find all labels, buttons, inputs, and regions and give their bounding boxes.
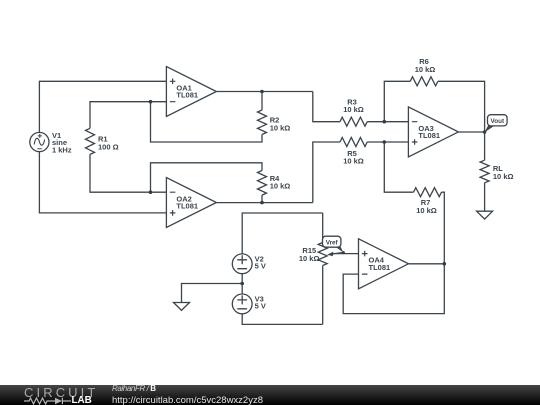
svg-text:5 V: 5 V	[255, 262, 266, 271]
svg-text:TL081: TL081	[176, 91, 198, 100]
svg-text:10 kΩ: 10 kΩ	[343, 105, 364, 114]
svg-text:10 kΩ: 10 kΩ	[270, 182, 291, 191]
svg-text:10 kΩ: 10 kΩ	[343, 156, 364, 165]
svg-text:TL081: TL081	[418, 131, 440, 140]
svg-text:10 kΩ: 10 kΩ	[415, 65, 436, 74]
svg-text:1 kHz: 1 kHz	[52, 146, 72, 155]
svg-text:Vref: Vref	[326, 240, 339, 247]
svg-text:5 V: 5 V	[255, 302, 266, 311]
svg-text:TL081: TL081	[369, 263, 391, 272]
svg-text:TL081: TL081	[176, 202, 198, 211]
svg-text:10 kΩ: 10 kΩ	[493, 172, 514, 181]
svg-text:Vout: Vout	[491, 118, 505, 125]
svg-text:100 Ω: 100 Ω	[98, 142, 119, 151]
svg-text:10 kΩ: 10 kΩ	[270, 123, 291, 132]
svg-text:10 kΩ: 10 kΩ	[416, 206, 437, 215]
svg-text:10 kΩ: 10 kΩ	[299, 254, 320, 263]
